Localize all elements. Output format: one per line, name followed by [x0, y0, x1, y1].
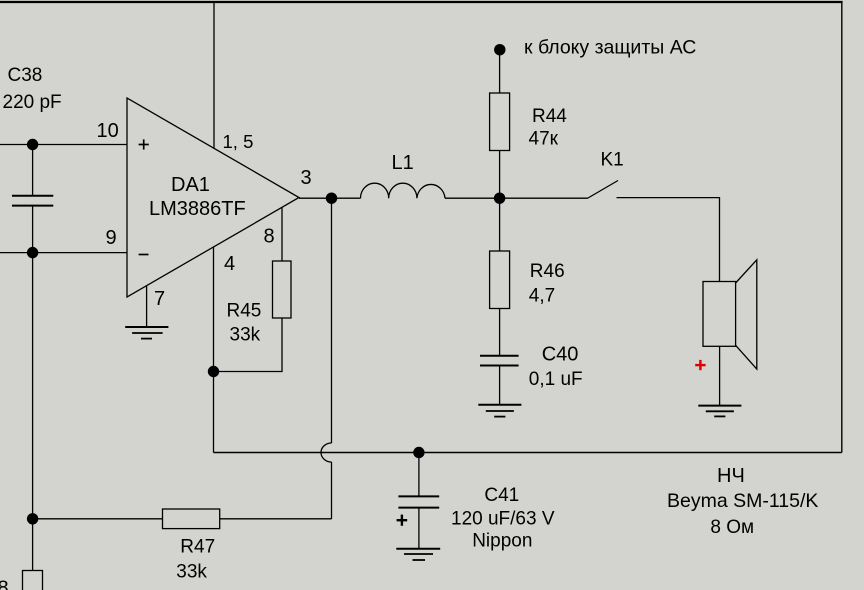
switch K1 blade [588, 181, 618, 199]
wire R45 bottom [214, 318, 283, 372]
resistor R47 [163, 509, 220, 529]
wire right border rail [841, 2, 843, 453]
wire feedback horizontal [220, 518, 332, 520]
svg-text:R45: R45 [227, 301, 262, 322]
svg-text:НЧ: НЧ [717, 465, 745, 487]
wire speaker bottom lead [719, 346, 721, 405]
wire feedback vertical from output [331, 198, 333, 443]
wire R47 to left node [33, 518, 163, 520]
op-amp DA1 triangle [127, 98, 299, 297]
svg-text:8: 8 [264, 226, 275, 248]
node dot output [326, 193, 337, 204]
svg-text:3: 3 [301, 167, 312, 189]
svg-text:R46: R46 [530, 261, 565, 282]
speaker body [703, 282, 736, 347]
wire pin 1,5 vertical [213, 2, 215, 149]
svg-text:4: 4 [224, 253, 235, 275]
wire C41 bottom lead [418, 508, 420, 549]
node dot R45/pin4 [208, 366, 219, 377]
svg-text:120 uF/63 V: 120 uF/63 V [451, 509, 555, 530]
wire pin 8 [281, 208, 283, 262]
node dot R44/R46 [494, 193, 505, 204]
node dot pin10/C38 [27, 139, 38, 150]
resistor R46 [490, 251, 510, 309]
wire feedback vertical lower [331, 462, 333, 519]
node dot to protection block [494, 44, 505, 55]
minus input symbol [139, 254, 149, 256]
svg-text:1, 5: 1, 5 [223, 131, 254, 152]
ground speaker [698, 406, 741, 417]
svg-text:33k: 33k [230, 325, 261, 346]
resistor R45 [273, 261, 292, 318]
wire R44 bottom lead [499, 151, 501, 199]
wire op-amp output [299, 197, 361, 199]
svg-text:0,1 uF: 0,1 uF [529, 369, 583, 390]
wire C38 down to R47 node [32, 253, 34, 571]
resistor R44 [490, 93, 510, 151]
wire top border rail [0, 1, 843, 3]
speaker cone [736, 260, 757, 369]
wire C40 bottom lead [499, 366, 501, 405]
svg-text:8 Ом: 8 Ом [710, 517, 754, 538]
svg-text:33k: 33k [176, 562, 207, 583]
pin 7 wire [146, 286, 148, 327]
svg-text:к блоку защиты АС: к блоку защиты АС [524, 37, 696, 59]
svg-text:220 pF: 220 pF [3, 92, 62, 113]
svg-text:R47: R47 [180, 537, 215, 558]
wire R46 top lead [499, 198, 501, 251]
speaker plus mark [695, 360, 705, 370]
plus input symbol [139, 139, 149, 149]
ground pin7 [125, 327, 168, 339]
svg-text:C38: C38 [8, 65, 43, 86]
svg-text:4,7: 4,7 [529, 286, 555, 307]
wire hop over bottom rail [321, 443, 332, 462]
wire C41 top lead [418, 453, 420, 497]
svg-text:R44: R44 [532, 106, 567, 127]
C41 plus mark [397, 515, 408, 526]
svg-text:C40: C40 [542, 344, 579, 366]
node dot R47 left [27, 513, 38, 524]
wire L1 to K1 [445, 197, 588, 199]
wire bottom rail y=452.5 [214, 452, 842, 454]
svg-text:C41: C41 [484, 485, 519, 506]
node dot pin9/C38 [27, 247, 38, 258]
wire R44 top lead [499, 50, 501, 93]
svg-text:10: 10 [97, 120, 119, 142]
svg-text:L1: L1 [392, 152, 414, 174]
wire pin 4 down [213, 247, 215, 453]
svg-text:Beyma SM-115/K: Beyma SM-115/K [667, 490, 818, 512]
svg-text:47к: 47к [529, 129, 559, 150]
wire pin 10 [0, 144, 127, 146]
capacitor C41 plates [398, 496, 439, 507]
ground C41 [396, 549, 440, 560]
node dot C41 [413, 447, 424, 458]
capacitor C38 [12, 145, 53, 253]
wire R46 bottom lead [499, 309, 501, 356]
svg-text:K1: K1 [601, 150, 624, 171]
svg-text:Nippon: Nippon [472, 531, 532, 552]
svg-text:LM3886TF: LM3886TF [149, 198, 246, 220]
svg-text:8: 8 [0, 578, 9, 590]
ground C40 [478, 405, 521, 417]
svg-text:9: 9 [106, 227, 117, 249]
wire pin 9 [0, 252, 127, 254]
svg-text:DA1: DA1 [171, 174, 210, 196]
inductor L1 [361, 183, 446, 198]
wire K1 to speaker [617, 198, 720, 282]
svg-text:7: 7 [154, 288, 165, 310]
resistor bottom-left partial [23, 571, 43, 590]
capacitor C40 [480, 356, 519, 366]
